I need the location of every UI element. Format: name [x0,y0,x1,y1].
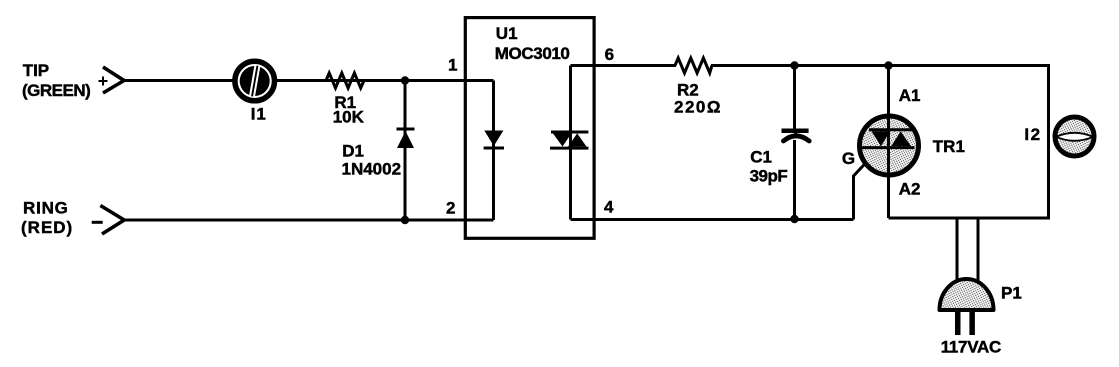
svg-text:I1: I1 [251,104,267,123]
svg-text:I2: I2 [1024,125,1041,144]
svg-text:117VAC: 117VAC [941,338,1001,357]
svg-text:(RED): (RED) [21,218,73,237]
svg-text:U1: U1 [496,24,518,43]
svg-text:6: 6 [605,45,614,64]
svg-text:RING: RING [23,198,69,217]
svg-text:1N4002: 1N4002 [342,160,402,179]
svg-text:C1: C1 [750,148,772,167]
svg-text:TIP: TIP [23,61,49,80]
svg-text:A2: A2 [899,180,921,199]
svg-text:P1: P1 [1001,283,1022,302]
svg-text:(GREEN): (GREEN) [22,81,90,100]
svg-text:10K: 10K [333,108,365,127]
svg-text:D1: D1 [342,142,364,161]
svg-text:TR1: TR1 [933,137,965,156]
svg-text:4: 4 [604,197,614,216]
svg-text:MOC3010: MOC3010 [495,44,570,63]
svg-text:1: 1 [448,55,457,74]
svg-text:39pF: 39pF [750,167,788,186]
svg-text:220Ω: 220Ω [674,97,722,116]
svg-text:A1: A1 [899,86,921,105]
svg-text:2: 2 [446,198,455,217]
svg-text:G: G [842,149,855,168]
